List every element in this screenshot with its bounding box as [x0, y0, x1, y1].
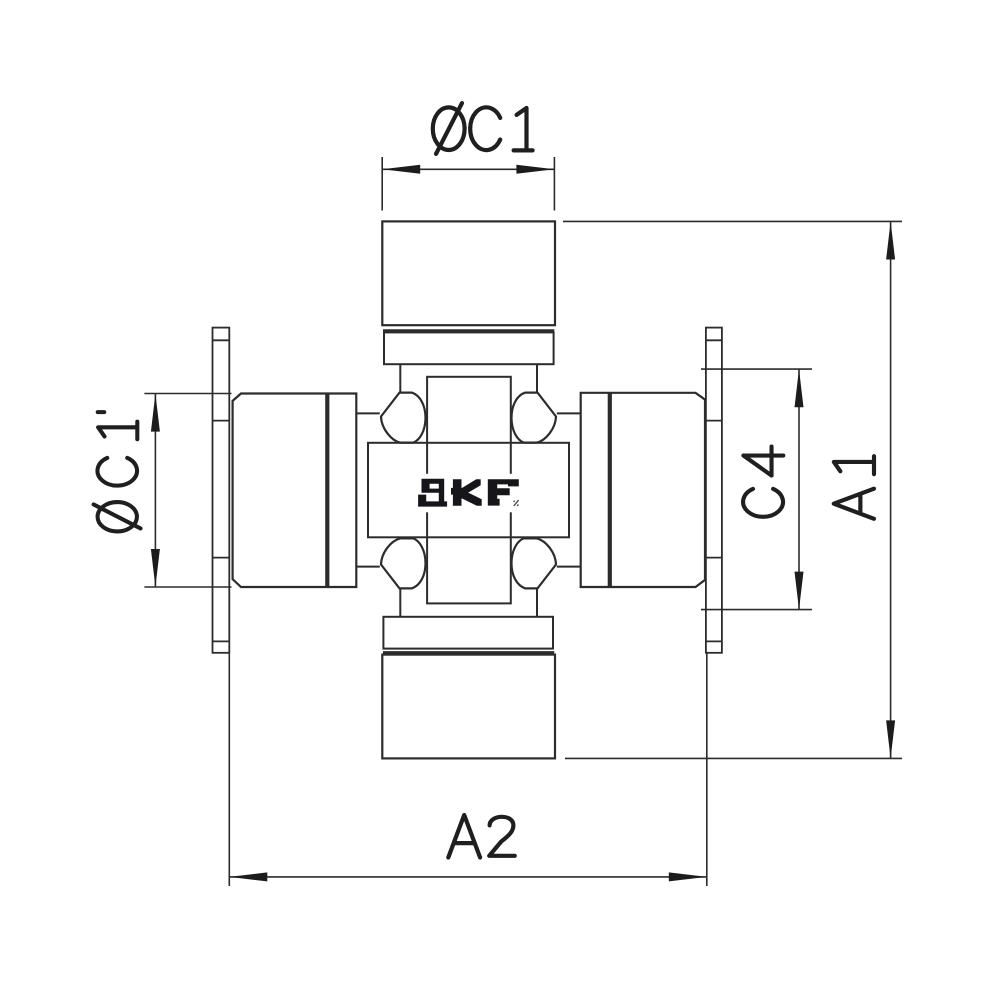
dimension OC1': dimension line: [154, 394, 156, 588]
cross horizontal arm: [368, 443, 569, 538]
dimension OC1: extension lines: [382, 157, 554, 211]
bottom cup skirt: [383, 617, 553, 649]
bearing bottom-left: [381, 538, 426, 588]
cross vertical arm: [427, 377, 511, 604]
left connector lines: [356, 413, 380, 566]
top cup seal band: [383, 329, 554, 332]
right cup seal band: [608, 393, 612, 587]
dimension A2: extension lines: [229, 653, 707, 886]
left plate ticks: [213, 421, 230, 558]
dimension A1: top arrow: [886, 222, 895, 260]
top bearing cup body: [382, 221, 555, 325]
left flange plate: [213, 328, 230, 653]
dimension A2: right arrow: [669, 872, 707, 881]
SKF logo: trademark mark: [514, 500, 519, 506]
dimension OC1: dimension line: [382, 168, 554, 170]
bottom bearing cup body: [382, 655, 555, 759]
dimension C4: extension lines: [701, 369, 812, 609]
dimension A1: rotated label: [834, 456, 874, 519]
dimension OC1': top arrow: [151, 394, 160, 432]
dimension OC1' (left): extension lines: [144, 394, 231, 588]
right plate ticks: [706, 421, 722, 558]
dimension OC1': rotated label: [94, 412, 141, 531]
dimension A1: extension lines: [563, 221, 902, 758]
bearing top-left: [381, 393, 426, 443]
right plate cap lines: [706, 340, 722, 641]
bottom trunnion neck lines: [400, 589, 537, 616]
left plate cap lines: [213, 340, 230, 641]
dimension C4: rotated label: [743, 447, 783, 517]
dimension OC1': bottom arrow: [151, 549, 160, 587]
dimension A1: bottom arrow: [886, 720, 895, 758]
logo background patch: [414, 474, 521, 513]
dimension OC1: left arrow: [382, 165, 420, 174]
dimension A2: label: [448, 815, 514, 858]
left cup seal band: [325, 394, 329, 588]
left bearing cup body: [233, 394, 357, 588]
dimension A2: dimension line: [229, 876, 707, 878]
dimension OC1: right arrow: [516, 165, 554, 174]
SKF logo: letter K: [451, 479, 462, 505]
dimension A2: left arrow: [229, 872, 267, 881]
top trunnion neck lines: [400, 364, 537, 392]
bearing bottom-right: [511, 538, 556, 588]
dimension A1: dimension line: [890, 221, 892, 758]
bearing top-right: [511, 393, 556, 443]
SKF logo: letter F: [488, 479, 519, 505]
right bearing cup body: [581, 393, 705, 587]
SKF logo: letter S: [418, 479, 447, 507]
top cup skirt: [384, 332, 554, 364]
bottom cup seal band: [383, 651, 554, 654]
dimension OC1: label: [433, 103, 533, 154]
dimension C4: dimension line: [798, 369, 800, 609]
dimension C4: bottom arrow: [795, 572, 804, 610]
dimension C4: top arrow: [795, 369, 804, 407]
right flange plate: [706, 328, 722, 653]
right connector lines: [557, 413, 581, 566]
